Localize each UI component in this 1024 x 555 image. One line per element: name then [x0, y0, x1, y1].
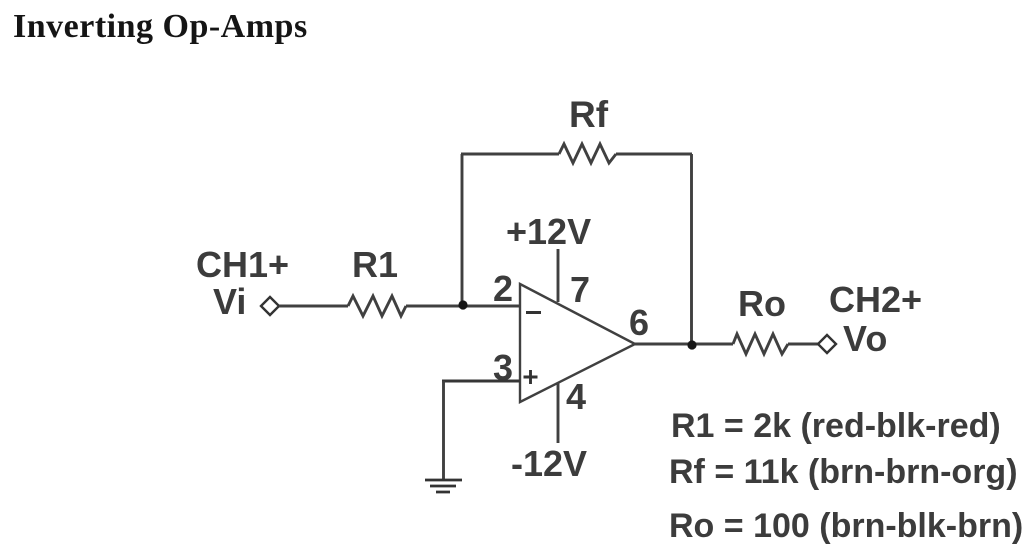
wire: Ro to output terminal [788, 343, 818, 346]
wire: feedback left vertical [461, 154, 464, 304]
wire: pin 3 horizontal [442, 380, 520, 383]
svg-text:R1 = 2k (red-blk-red): R1 = 2k (red-blk-red) [671, 407, 1001, 445]
wire: feedback right vertical [690, 154, 693, 344]
svg-text:2: 2 [493, 268, 513, 309]
terminal: input diamond [261, 297, 279, 315]
wire: output from op-amp [635, 343, 733, 346]
junction: output node dot [687, 340, 696, 349]
svg-text:Ro: Ro [738, 283, 786, 324]
resistor Rf [559, 144, 616, 163]
svg-text:Rf: Rf [569, 94, 609, 135]
svg-text:Ro = 100 (brn-blk-brn): Ro = 100 (brn-blk-brn) [669, 507, 1023, 545]
svg-text:+12V: +12V [506, 211, 591, 252]
op-amp minus sign [526, 311, 541, 314]
svg-text:Vo: Vo [843, 318, 888, 359]
svg-text:7: 7 [570, 269, 590, 310]
svg-text:CH2+: CH2+ [829, 279, 922, 320]
ground [425, 480, 462, 492]
svg-text:6: 6 [629, 302, 649, 343]
svg-text:R1: R1 [352, 244, 398, 285]
svg-text:-12V: -12V [511, 443, 587, 484]
op-amp U1 [520, 284, 635, 402]
terminal: output diamond [818, 335, 836, 353]
wire: pin 4 to -12V [557, 383, 560, 443]
svg-text:4: 4 [566, 376, 586, 417]
svg-text:Rf = 11k (brn-brn-org): Rf = 11k (brn-brn-org) [669, 453, 1018, 491]
junction: input node dot [458, 300, 467, 309]
wire: ground vertical [442, 381, 445, 479]
wire: feedback top horizontal (right of Rf) [616, 153, 692, 156]
wire: R1 to op-amp inverting input [406, 305, 520, 308]
wire: input to R1 [279, 305, 348, 308]
wire: feedback top horizontal (left of Rf) [461, 153, 559, 156]
svg-text:Inverting Op-Amps: Inverting Op-Amps [13, 8, 308, 45]
wire: pin 7 to +12V [557, 249, 560, 302]
svg-text:CH1+: CH1+ [196, 244, 289, 285]
svg-text:Vi: Vi [213, 281, 246, 322]
resistor R1 [348, 296, 406, 316]
resistor Ro [733, 334, 788, 354]
op-amp plus sign [524, 370, 538, 384]
